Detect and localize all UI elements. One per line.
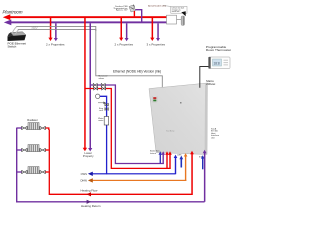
svg-text:cock: cock [99, 110, 103, 112]
POE switch body [8, 35, 27, 41]
valve rad2 left [22, 148, 28, 152]
radiator 3 [17, 167, 49, 174]
node HIU box [149, 83, 208, 155]
svg-text:Radiator: Radiator [27, 118, 38, 122]
wire NE blue stub [202, 158, 203, 170]
wire connector link [177, 19, 182, 21]
node HIU logo [153, 96, 157, 102]
valve V3 [94, 87, 98, 90]
wire lower property purple drop [90, 23, 92, 148]
wire NE stub left [181, 158, 183, 168]
wire rad1 right pipe [45, 128, 48, 130]
wire cold main blue [100, 96, 107, 174]
wire cat5 cable 1 [12, 27, 17, 34]
node heating return arrow [87, 200, 92, 204]
wire boiler stub blue [160, 154, 161, 164]
wire cat5 cable 2 [15, 30, 19, 35]
svg-text:18:8: 18:8 [214, 62, 220, 66]
wire CWS blue riser [175, 157, 176, 174]
svg-text:Room Thermostat: Room Thermostat [206, 48, 231, 52]
wire PSU purple link [136, 10, 142, 22]
svg-text:2 x Properties: 2 x Properties [115, 42, 134, 46]
wire lower property red drop [84, 18, 86, 148]
wire purple valve branch [90, 85, 164, 164]
svg-text:Unit: Unit [211, 136, 215, 139]
wire heating flow run [49, 130, 192, 195]
valve rad3 left [22, 170, 28, 174]
wire DHW run [92, 180, 186, 181]
wire CWS run [92, 173, 175, 174]
valve V2 [101, 83, 105, 86]
wire rad2 left pipe [17, 149, 22, 151]
valve rad2 right [40, 148, 46, 152]
valve rad1 right [40, 126, 46, 130]
wire rad1 left pipe [17, 127, 22, 129]
wire property drop 3 red [152, 18, 154, 39]
wire heating return run [17, 128, 205, 202]
svg-text:Bypass, 24V: Bypass, 24V [116, 10, 128, 12]
POE switch top face [11, 32, 27, 36]
svg-text:Plantroom: Plantroom [3, 10, 23, 15]
wire boiler stub purple [163, 154, 164, 164]
wire purple return bus [11, 21, 167, 23]
wire rad3 right pipe [45, 171, 48, 173]
wire rad2 right pipe [45, 149, 48, 151]
node water gauge [96, 94, 100, 98]
wire property drop 2 purple [126, 23, 128, 38]
wire property drop 3 purple [157, 23, 159, 38]
radiator 2 [17, 145, 49, 152]
valve rad3 right [40, 170, 46, 174]
svg-text:DHW: DHW [80, 179, 87, 183]
wire property drop 1 purple [55, 23, 57, 38]
svg-text:/return: /return [150, 152, 157, 155]
wire aerial leader line [164, 5, 171, 8]
node red bus left arrow [3, 14, 11, 20]
valve rad1 left [22, 126, 28, 130]
svg-text:3 x Properties: 3 x Properties [147, 42, 166, 46]
wire red boiler branch [85, 89, 171, 169]
svg-text:aerial link: aerial link [172, 11, 180, 13]
svg-text:230vac: 230vac [206, 82, 216, 86]
wire PSU red drop [134, 11, 135, 16]
wire stopcock pointer [98, 102, 104, 104]
node wall connector box [167, 15, 177, 24]
valve V4 [102, 87, 106, 90]
wire ethernet run A [16, 26, 162, 88]
node DHW arrow [88, 178, 93, 182]
wire mains from thermostat [200, 67, 209, 88]
svg-text:Property: Property [83, 154, 94, 158]
svg-text:2 x Properties: 2 x Properties [46, 42, 65, 46]
transformer PSU icon [129, 5, 136, 12]
aerial cylinder [181, 16, 185, 26]
wire heating return riser [204, 152, 206, 202]
svg-text:Heating Flow: Heating Flow [81, 189, 99, 193]
svg-text:meter: meter [98, 119, 103, 122]
radiator 1 [17, 123, 49, 130]
node CWS arrow [88, 172, 93, 176]
wire ethernet run B [18, 29, 96, 31]
wire rad3 left pipe [17, 171, 22, 173]
valve V1 [93, 83, 97, 86]
svg-text:Switch: Switch [8, 45, 17, 49]
svg-text:Heating Return: Heating Return [81, 204, 101, 208]
node aerial callout box [171, 6, 187, 13]
wire red supply bus [10, 16, 167, 18]
wire red heating stub pair [166, 154, 167, 169]
node purple bus left arrow [4, 20, 12, 26]
svg-text:CWS: CWS [81, 172, 87, 176]
valve stopcock [105, 103, 108, 106]
node water meter [104, 117, 109, 126]
wire DHW orange riser [185, 156, 186, 181]
wire property drop 2 red [121, 18, 123, 39]
node thermostat [209, 57, 231, 69]
node HIU small mark [180, 102, 182, 104]
wire property drop 1 red [50, 18, 52, 39]
svg-text:valves: valves [99, 78, 105, 80]
svg-text:Ethernet (NODE HB) Version (ln: Ethernet (NODE HB) Version (lnk) [113, 69, 161, 73]
node heating flow arrow [86, 192, 91, 196]
antenna flag [181, 11, 185, 16]
svg-text:SunAmp: SunAmp [166, 130, 175, 133]
wire heating flow riser [191, 153, 193, 195]
